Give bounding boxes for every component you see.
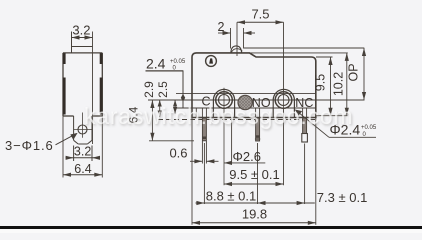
svg-text:+0.05: +0.05	[170, 59, 186, 65]
svg-text:2.9: 2.9	[142, 81, 156, 98]
svg-text:+0.05: +0.05	[361, 125, 377, 131]
svg-text:7.5: 7.5	[251, 7, 269, 22]
svg-text:Φ2.6: Φ2.6	[233, 149, 261, 164]
svg-text:2.5: 2.5	[156, 81, 170, 98]
svg-text:10.2: 10.2	[332, 72, 346, 96]
svg-text:OP: OP	[347, 63, 361, 81]
svg-text:19.8: 19.8	[242, 206, 267, 221]
svg-text:0.6: 0.6	[169, 146, 187, 161]
svg-text:9.5 ± 0.1: 9.5 ± 0.1	[229, 167, 280, 182]
svg-text:3−Φ1.6: 3−Φ1.6	[5, 138, 54, 153]
svg-text:2.4: 2.4	[146, 56, 166, 72]
svg-text:7.3 ± 0.1: 7.3 ± 0.1	[317, 190, 368, 205]
svg-text:6.4: 6.4	[74, 162, 91, 176]
svg-text:9.5: 9.5	[314, 74, 328, 91]
svg-text:3.2: 3.2	[74, 145, 91, 159]
svg-text:3.2: 3.2	[72, 23, 90, 38]
svg-text:8.8 ± 0.1: 8.8 ± 0.1	[206, 189, 257, 204]
